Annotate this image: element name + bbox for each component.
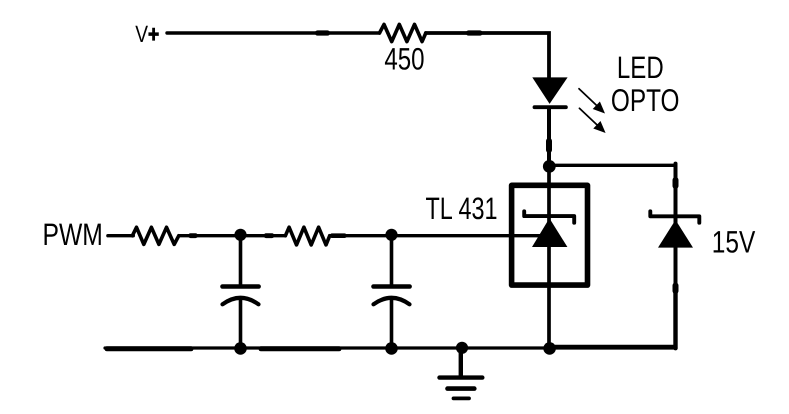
svg-text:15V: 15V: [712, 224, 756, 259]
svg-text:LED: LED: [617, 50, 664, 85]
svg-text:TL 431: TL 431: [426, 191, 498, 226]
svg-text:OPTO: OPTO: [611, 82, 680, 118]
svg-text:PWM: PWM: [43, 217, 103, 252]
svg-text:450: 450: [384, 41, 424, 76]
svg-text:V+: V+: [135, 22, 159, 48]
